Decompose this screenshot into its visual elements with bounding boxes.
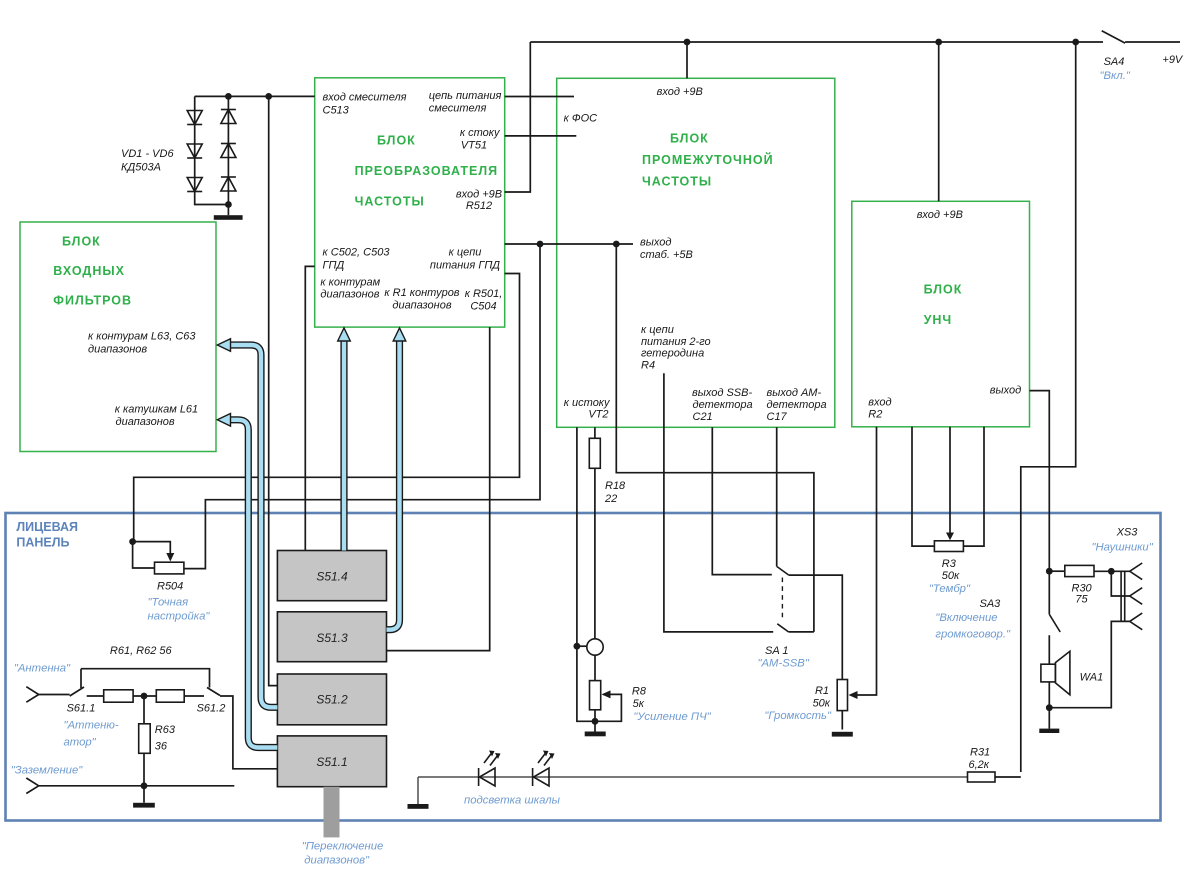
svg-text:к стоку: к стоку bbox=[460, 127, 501, 139]
pin label к цепи питания ГПД bbox=[430, 247, 500, 272]
svg-text:R2: R2 bbox=[868, 409, 882, 421]
label R8 5к Усиление ПЧ bbox=[632, 686, 712, 724]
svg-text:"Точная: "Точная bbox=[148, 596, 189, 608]
svg-text:цепь питания: цепь питания bbox=[429, 90, 502, 102]
svg-text:к цепи: к цепи bbox=[449, 247, 482, 259]
wire circle to R8 top bbox=[594, 655, 596, 681]
svg-text:ПАНЕЛЬ: ПАНЕЛЬ bbox=[16, 536, 69, 550]
wire WA1 to ground node bbox=[1048, 682, 1050, 729]
svg-text:питания 2-го: питания 2-го bbox=[641, 336, 711, 348]
cable к R1 контуров диапазонов (blue arrow up into converter) bbox=[387, 328, 406, 630]
wire R1 bottom to ground bbox=[841, 711, 843, 730]
svg-text:выход: выход bbox=[990, 385, 1021, 397]
pin label выход АМ-детектора С17 bbox=[767, 387, 827, 423]
svg-text:VD1 - VD6: VD1 - VD6 bbox=[121, 148, 174, 160]
wire SA3 to WA1 speaker bbox=[1048, 635, 1050, 664]
wire УНЧ pin to R3 right bbox=[963, 427, 984, 546]
svg-text:к истоку: к истоку bbox=[564, 397, 611, 409]
ground below WA1 bbox=[1039, 729, 1059, 733]
pin label к катушкам L61 диапазонов bbox=[115, 404, 198, 428]
label R31 6,2к bbox=[969, 747, 991, 772]
svg-text:диапазонов": диапазонов" bbox=[304, 855, 370, 867]
resistor R31 bbox=[968, 772, 996, 782]
svg-text:ПРОМЕЖУТОЧНОЙ: ПРОМЕЖУТОЧНОЙ bbox=[642, 152, 774, 167]
label XS3 Наушники bbox=[1092, 527, 1154, 554]
wire вход +9В R512 to rail bbox=[505, 42, 531, 192]
svg-text:R1: R1 bbox=[815, 685, 829, 697]
wire R8 bottom to ground node bbox=[594, 710, 596, 722]
cable to к катушкам L61 (blue arrow left) bbox=[217, 414, 277, 748]
svg-text:питания ГПД: питания ГПД bbox=[430, 260, 500, 272]
svg-text:С513: С513 bbox=[323, 105, 350, 117]
wire к истоку VT2 down to R8 ground node bbox=[577, 427, 595, 721]
wire antenna lead bbox=[26, 687, 69, 703]
diode VD2 bbox=[187, 144, 202, 158]
svg-text:"Аттеню-: "Аттеню- bbox=[64, 720, 119, 732]
svg-text:гетеродина: гетеродина bbox=[641, 348, 704, 360]
label R3 50к Тембр bbox=[929, 558, 971, 595]
switch SA1 lower throw blade bbox=[777, 624, 788, 632]
switch S61.2 blade bbox=[207, 688, 220, 696]
band switch shaft (Переключение диапазонов) bbox=[324, 787, 340, 838]
svg-text:выход: выход bbox=[640, 237, 671, 249]
band switch section S51.4 bbox=[277, 551, 386, 601]
svg-text:выход АМ-: выход АМ- bbox=[767, 387, 822, 399]
svg-text:выход SSB-: выход SSB- bbox=[692, 387, 752, 399]
wire к стоку VT51 bbox=[505, 135, 577, 137]
arrow R1 wiper bbox=[849, 691, 858, 699]
speaker WA1 bbox=[1041, 651, 1070, 695]
svg-text:"Антенна": "Антенна" bbox=[14, 663, 71, 675]
svg-text:настройка": настройка" bbox=[148, 611, 211, 623]
pin label к цепи питания 2-го гетеродина R4 bbox=[641, 324, 711, 371]
svg-text:к R1 контуров: к R1 контуров bbox=[384, 287, 459, 299]
wire R30 left lead bbox=[1049, 570, 1065, 572]
diode VD5 bbox=[221, 144, 236, 158]
label R30 75 bbox=[1072, 583, 1093, 606]
svg-text:S51.3: S51.3 bbox=[316, 631, 348, 645]
svg-text:R31: R31 bbox=[970, 747, 990, 759]
resistor R8 potentiometer bbox=[590, 681, 601, 710]
svg-text:диапазонов: диапазонов bbox=[88, 343, 147, 355]
ground below R1 bbox=[832, 732, 853, 737]
block БЛОК ПРЕОБРАЗОВАТЕЛЯ ЧАСТОТЫ bbox=[315, 78, 505, 327]
wire attenuator R61 R62 row bbox=[87, 695, 204, 697]
svg-text:к цепи: к цепи bbox=[641, 324, 674, 336]
wire R18 branch (IF bottom to circle) bbox=[594, 427, 596, 639]
svg-text:вход: вход bbox=[868, 397, 891, 409]
wire R4 pin down to SA1 lower throw left contact bbox=[664, 373, 773, 632]
wire R30 right lead to jack top contact bbox=[1094, 570, 1130, 572]
label R63 36 bbox=[155, 724, 176, 753]
resistor R3 potentiometer bbox=[934, 541, 963, 552]
wire scale lamp chain (подсветка шкалы) bbox=[418, 777, 968, 804]
wire VT2 node stub to lamp circle bbox=[577, 645, 587, 647]
wire R504 wiper tie bbox=[133, 542, 171, 568]
svg-text:"Включение: "Включение bbox=[935, 612, 997, 624]
svg-text:ВХОДНЫХ: ВХОДНЫХ bbox=[53, 264, 125, 278]
label VD1-VD6 КД503А bbox=[121, 148, 174, 174]
svg-text:КД503А: КД503А bbox=[121, 162, 161, 174]
diode VD1 bbox=[187, 111, 202, 125]
svg-text:S61.1: S61.1 bbox=[67, 703, 96, 715]
wire speaker node to jack lower contact bbox=[1049, 621, 1129, 707]
svg-text:SA 1: SA 1 bbox=[765, 645, 788, 657]
ground below R8 bbox=[585, 732, 606, 737]
wire ground stem below R8 bbox=[594, 721, 596, 731]
label ЛИЦЕВАЯ ПАНЕЛЬ bbox=[16, 520, 78, 550]
switch SA1 upper throw blade bbox=[777, 566, 789, 575]
diode VD4 bbox=[221, 110, 236, 124]
arrow R504 wiper bbox=[166, 553, 174, 562]
svg-text:УНЧ: УНЧ bbox=[924, 313, 953, 327]
svg-text:R3: R3 bbox=[942, 558, 957, 570]
wire S61.2 to S51.1 input bbox=[220, 696, 277, 769]
switch SA4 blade bbox=[1102, 31, 1180, 43]
svg-text:к контурам L63, С63: к контурам L63, С63 bbox=[88, 331, 196, 343]
label filter block title bbox=[53, 235, 132, 308]
svg-text:БЛОК: БЛОК bbox=[62, 235, 101, 249]
resistor R63 bbox=[139, 724, 151, 754]
wire УНЧ pin to R3 wiper bbox=[949, 427, 951, 534]
svg-text:50к: 50к bbox=[813, 698, 831, 710]
svg-text:к R501,: к R501, bbox=[465, 288, 503, 300]
pin label к R1 контуров диапазонов bbox=[384, 287, 459, 312]
pin label к контурам диапазонов bbox=[320, 277, 380, 301]
svg-text:диапазонов: диапазонов bbox=[392, 300, 451, 312]
wire УНЧ выход to speaker switch node bbox=[1030, 391, 1050, 572]
pin label к истоку VT2 bbox=[564, 397, 611, 421]
svg-text:"Наушники": "Наушники" bbox=[1092, 542, 1154, 554]
svg-text:ЧАСТОТЫ: ЧАСТОТЫ bbox=[355, 195, 425, 209]
svg-text:R4: R4 bbox=[641, 359, 655, 371]
pin label к R501 С504 bbox=[465, 288, 503, 313]
label SA4 Вкл +9V bbox=[1100, 54, 1184, 82]
svg-text:смесителя: смесителя bbox=[429, 103, 487, 115]
svg-text:"Громкость": "Громкость" bbox=[764, 710, 832, 722]
svg-text:R512: R512 bbox=[466, 200, 492, 212]
svg-text:вход +9В: вход +9В bbox=[917, 209, 963, 221]
wire УНЧ вход +9В from rail bbox=[938, 42, 940, 201]
wire C21 SSB output to SA1 upper throw left contact bbox=[712, 427, 772, 574]
svg-text:"АМ-SSB": "АМ-SSB" bbox=[758, 658, 810, 670]
svg-text:диапазонов: диапазонов bbox=[116, 416, 175, 428]
wire к цепи питания ГПД to выход стаб +5В bbox=[505, 243, 633, 245]
svg-text:к ФОС: к ФОС bbox=[564, 113, 598, 125]
svg-text:WA1: WA1 bbox=[1080, 672, 1104, 684]
svg-text:детектора: детектора bbox=[767, 399, 827, 411]
wire +9V top rail bbox=[530, 41, 1103, 43]
wire jack middle contact jog bbox=[1111, 571, 1129, 596]
svg-text:БЛОК: БЛОК bbox=[377, 134, 416, 148]
wire выход стаб +5В down to SA1 lower throw bbox=[616, 244, 814, 632]
svg-text:6,2к: 6,2к bbox=[969, 759, 990, 771]
svg-text:5к: 5к bbox=[633, 698, 645, 710]
svg-text:подсветка шкалы: подсветка шкалы bbox=[464, 795, 561, 807]
pin label к стоку VT51 bbox=[460, 127, 501, 152]
svg-text:S51.1: S51.1 bbox=[316, 755, 347, 769]
svg-text:S51.2: S51.2 bbox=[316, 693, 348, 707]
svg-text:громкоговор.": громкоговор." bbox=[935, 628, 1011, 640]
svg-text:"Тембр": "Тембр" bbox=[929, 583, 971, 595]
arrow R8 wiper bbox=[602, 690, 611, 698]
block БЛОК ВХОДНЫХ ФИЛЬТРОВ bbox=[20, 222, 216, 452]
wire ground stem below R63 bbox=[143, 786, 145, 803]
svg-text:стаб. +5В: стаб. +5В bbox=[640, 249, 693, 261]
svg-text:к контурам: к контурам bbox=[320, 277, 380, 289]
ground below LED wire bbox=[408, 804, 429, 809]
svg-text:"Заземление": "Заземление" bbox=[11, 765, 83, 777]
cable to к контурам L63 C63 (blue arrow left) bbox=[217, 339, 277, 708]
wire к R501 C504 right pin to R504 left terminal bbox=[134, 274, 520, 542]
diode VD3 bbox=[187, 178, 202, 192]
wire C17 AM output to SA1 blade bbox=[776, 427, 778, 566]
wire converter bottom pin to S51.3 right side bbox=[387, 327, 490, 650]
svg-text:R18: R18 bbox=[605, 480, 626, 492]
wire R1 wiper to УНЧ вход R2 bbox=[851, 427, 877, 695]
svg-text:ЧАСТОТЫ: ЧАСТОТЫ bbox=[642, 175, 712, 189]
svg-text:R61, R62 56: R61, R62 56 bbox=[110, 645, 173, 657]
pin label вход +9В R512 bbox=[456, 189, 502, 213]
wire SA3 upper segment bbox=[1048, 571, 1050, 614]
svg-text:БЛОК: БЛОК bbox=[924, 283, 963, 297]
svg-text:вход +9В: вход +9В bbox=[456, 189, 502, 201]
switch SA3 blade bbox=[1049, 614, 1060, 632]
svg-text:вход +9В: вход +9В bbox=[657, 86, 703, 98]
svg-text:С504: С504 bbox=[470, 301, 496, 313]
label SA 1 AM-SSB bbox=[758, 645, 810, 670]
wire diode column left bbox=[195, 96, 229, 204]
label IF block title bbox=[642, 132, 774, 189]
label Аттенюатор bbox=[64, 720, 119, 749]
resistor R1 potentiometer bbox=[837, 680, 847, 711]
svg-text:ГПД: ГПД bbox=[323, 260, 345, 272]
svg-text:VT2: VT2 bbox=[588, 409, 608, 421]
svg-text:ПРЕОБРАЗОВАТЕЛЯ: ПРЕОБРАЗОВАТЕЛЯ bbox=[355, 164, 499, 178]
wire R8 wiper loop bbox=[595, 694, 621, 721]
wire ground stem below diodes bbox=[227, 205, 229, 216]
switch SA1 gang link (dashed) bbox=[781, 578, 783, 622]
LED scale lamp 1 bbox=[479, 753, 498, 787]
label R1 50к Громкость bbox=[764, 685, 832, 722]
band switch section S51.1 bbox=[277, 736, 386, 787]
resistor R504 bbox=[155, 562, 184, 574]
svg-text:БЛОК: БЛОК bbox=[670, 132, 709, 146]
svg-text:R8: R8 bbox=[632, 686, 647, 698]
svg-text:R63: R63 bbox=[155, 724, 176, 736]
label Переключение диапазонов bbox=[302, 841, 384, 867]
label R18 22 bbox=[604, 480, 626, 505]
svg-text:22: 22 bbox=[604, 493, 617, 505]
wire Заземление lead bbox=[26, 778, 234, 794]
svg-text:50к: 50к bbox=[942, 570, 960, 582]
wire +9V rail down to R31 (scale lamps feed) bbox=[1021, 42, 1076, 772]
wire R63 top lead bbox=[143, 696, 145, 724]
svg-text:С17: С17 bbox=[767, 411, 788, 423]
wire diode column right bbox=[227, 96, 229, 204]
cable к контурам диапазонов (blue arrow up into converter) bbox=[338, 328, 351, 551]
svg-text:к катушкам L61: к катушкам L61 bbox=[115, 404, 198, 416]
wire УНЧ pin to R3 left bbox=[912, 427, 934, 546]
wire SA1 upper throw to R1 top bbox=[789, 575, 843, 679]
pin label выход SSB-детектора С21 bbox=[692, 387, 753, 423]
band switch section S51.3 bbox=[277, 612, 386, 662]
svg-text:"Переключение: "Переключение bbox=[302, 841, 384, 853]
label УНЧ block title bbox=[924, 283, 963, 328]
svg-text:75: 75 bbox=[1075, 594, 1088, 606]
ground below R63 bbox=[133, 803, 155, 808]
label SA3 Включение громкоговор bbox=[935, 598, 1011, 640]
svg-text:XS3: XS3 bbox=[1116, 527, 1139, 539]
wire IF block вход +9В from rail bbox=[686, 42, 688, 78]
lamp circle above R8 bbox=[587, 639, 603, 655]
headphone jack XS3 contacts bbox=[1121, 563, 1142, 630]
svg-text:диапазонов: диапазонов bbox=[320, 289, 379, 301]
svg-text:к С502, С503: к С502, С503 bbox=[323, 247, 391, 259]
label converter block title bbox=[355, 134, 499, 209]
ground below diodes bbox=[214, 215, 243, 220]
block БЛОК УНЧ bbox=[852, 201, 1030, 426]
svg-text:+9V: +9V bbox=[1162, 54, 1184, 66]
wire R31 right lead bbox=[995, 776, 1021, 778]
svg-text:детектора: детектора bbox=[693, 399, 753, 411]
resistor R62 bbox=[156, 690, 184, 702]
pin label к контурам L63 С63 диапазонов bbox=[88, 331, 196, 356]
LED scale lamp 2 bbox=[533, 753, 552, 787]
resistor R30 bbox=[1065, 565, 1094, 576]
svg-text:S51.4: S51.4 bbox=[316, 569, 348, 583]
wire к C502 C503 ГПД pin down to S51.4 bbox=[305, 266, 314, 550]
wire R63 bottom to ground rail bbox=[143, 753, 145, 786]
band switch section S51.2 bbox=[277, 674, 386, 725]
front panel boundary ЛИЦЕВАЯ ПАНЕЛЬ bbox=[6, 513, 1161, 821]
pin label цепь питания смесителя bbox=[429, 90, 502, 115]
svg-text:S61.2: S61.2 bbox=[197, 703, 226, 715]
pin label выход стаб +5В bbox=[640, 237, 693, 262]
wire mixer input rail (diodes to converter C513 pin) bbox=[195, 95, 315, 97]
svg-text:36: 36 bbox=[155, 741, 168, 753]
svg-text:"Усиление ПЧ": "Усиление ПЧ" bbox=[633, 711, 711, 723]
svg-text:SA4: SA4 bbox=[1104, 56, 1125, 68]
resistor R61 bbox=[104, 690, 133, 702]
pin label вход R2 bbox=[868, 397, 891, 421]
svg-text:ФИЛЬТРОВ: ФИЛЬТРОВ bbox=[53, 293, 132, 307]
wire mixer node down to S51.2 bbox=[269, 96, 278, 685]
wire ГПД supply branch to R504 right terminal bbox=[184, 244, 540, 569]
svg-text:вход смесителя: вход смесителя bbox=[323, 92, 407, 104]
diode VD6 bbox=[221, 177, 236, 191]
resistor R18 bbox=[589, 438, 600, 468]
label R504 Точная настройка bbox=[148, 581, 211, 623]
wire цепь питания смесителя to к ФОС bbox=[505, 96, 574, 98]
svg-text:атор": атор" bbox=[64, 737, 97, 749]
svg-text:R504: R504 bbox=[157, 581, 183, 593]
svg-text:"Вкл.": "Вкл." bbox=[1100, 70, 1131, 82]
pin label вход смесителя С513 bbox=[323, 92, 407, 117]
wire SA1 lower throw right segment bbox=[789, 631, 814, 633]
svg-text:SA3: SA3 bbox=[980, 598, 1002, 610]
arrow R3 wiper bbox=[946, 533, 954, 541]
svg-text:С21: С21 bbox=[693, 411, 713, 423]
block БЛОК ПРОМЕЖУТОЧНОЙ ЧАСТОТЫ bbox=[557, 78, 835, 427]
svg-text:VT51: VT51 bbox=[461, 140, 487, 152]
switch S61.1 blade and attenuator bypass bbox=[70, 669, 210, 696]
svg-text:ЛИЦЕВАЯ: ЛИЦЕВАЯ bbox=[16, 520, 78, 534]
pin label к C502 C503 ГПД bbox=[323, 247, 391, 272]
